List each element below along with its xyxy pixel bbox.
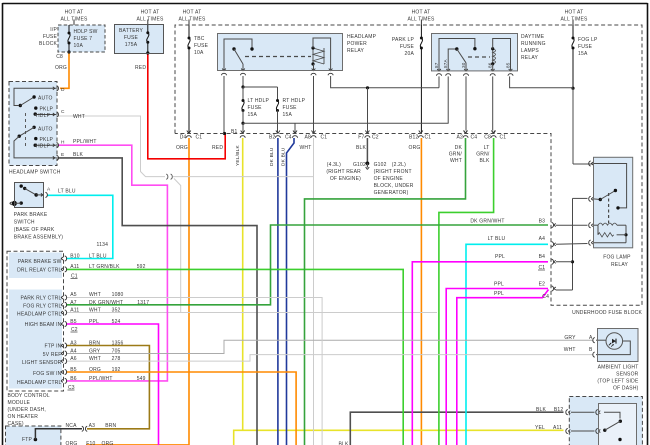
- svg-text:(TOP LEFT SIDE: (TOP LEFT SIDE: [597, 379, 639, 385]
- svg-text:A11: A11: [70, 264, 79, 270]
- svg-text:WHT: WHT: [89, 292, 101, 298]
- svg-text:15A: 15A: [578, 51, 588, 57]
- svg-text:PPL: PPL: [494, 282, 504, 288]
- svg-text:BRN: BRN: [105, 423, 116, 429]
- svg-text:LT BLU: LT BLU: [89, 254, 107, 260]
- svg-text:(2.2L): (2.2L): [392, 162, 406, 168]
- svg-text:FOG LAMP: FOG LAMP: [603, 255, 631, 261]
- svg-text:FUSE: FUSE: [283, 105, 298, 111]
- svg-text:AUTO: AUTO: [38, 127, 53, 133]
- svg-text:A4: A4: [70, 349, 77, 355]
- svg-text:ORG: ORG: [102, 441, 114, 445]
- svg-text:MODULE: MODULE: [8, 400, 31, 406]
- svg-text:RELAY: RELAY: [611, 262, 628, 268]
- svg-text:BLK: BLK: [338, 442, 349, 445]
- svg-text:PARK LP: PARK LP: [392, 37, 415, 43]
- svg-text:YEL: YEL: [535, 425, 545, 431]
- svg-text:ORG: ORG: [89, 367, 101, 373]
- svg-text:A11: A11: [553, 425, 562, 431]
- svg-text:RT HDLP: RT HDLP: [283, 98, 306, 104]
- svg-text:D: D: [61, 87, 65, 93]
- svg-text:HOT AT: HOT AT: [412, 10, 431, 16]
- svg-text:PPL/WHT: PPL/WHT: [89, 376, 113, 382]
- svg-text:PPL: PPL: [494, 291, 504, 297]
- svg-text:DRL RELAY CTRL: DRL RELAY CTRL: [17, 268, 61, 274]
- svg-text:OF DASH): OF DASH): [613, 386, 639, 392]
- svg-text:(BASE OF PARK: (BASE OF PARK: [14, 227, 55, 233]
- svg-text:FOG SW IN: FOG SW IN: [33, 371, 62, 377]
- svg-text:(RIGHT FRONT: (RIGHT FRONT: [374, 169, 412, 175]
- svg-text:FTP: FTP: [22, 437, 33, 443]
- svg-text:RELAY: RELAY: [521, 55, 538, 61]
- svg-text:AUTO: AUTO: [38, 96, 53, 102]
- svg-text:DK BLU: DK BLU: [280, 147, 286, 166]
- svg-text:352: 352: [112, 308, 121, 314]
- svg-text:BLK: BLK: [536, 407, 547, 413]
- svg-text:BODY CONTROL: BODY CONTROL: [8, 393, 50, 399]
- svg-text:A3: A3: [89, 423, 96, 429]
- svg-text:BLK: BLK: [73, 152, 84, 158]
- svg-text:A6: A6: [70, 356, 77, 362]
- svg-text:PPL: PPL: [89, 319, 99, 325]
- svg-text:278: 278: [112, 356, 121, 362]
- svg-text:(4.3L): (4.3L): [327, 162, 341, 168]
- svg-text:524: 524: [112, 319, 121, 325]
- svg-text:HEADLAMP CTRL: HEADLAMP CTRL: [17, 312, 61, 318]
- svg-text:WHT: WHT: [89, 308, 101, 314]
- svg-text:ALL TIMES: ALL TIMES: [560, 17, 588, 23]
- svg-text:RED: RED: [212, 145, 223, 151]
- svg-text:TBC: TBC: [194, 36, 205, 42]
- svg-text:LT BLU: LT BLU: [488, 236, 506, 242]
- svg-text:592: 592: [137, 264, 146, 270]
- svg-text:A: A: [47, 187, 51, 193]
- svg-text:WHT: WHT: [300, 145, 312, 151]
- svg-text:A3: A3: [70, 341, 77, 347]
- svg-text:10A: 10A: [194, 50, 204, 56]
- svg-text:NCA: NCA: [66, 423, 78, 429]
- svg-text:FUSE: FUSE: [248, 105, 263, 111]
- svg-text:ALL TIMES: ALL TIMES: [178, 17, 206, 23]
- svg-text:85: 85: [506, 62, 511, 68]
- svg-text:WHT: WHT: [73, 114, 85, 120]
- svg-text:ALL TIMES: ALL TIMES: [60, 17, 88, 23]
- svg-text:FUSE: FUSE: [578, 44, 593, 50]
- svg-text:F7: F7: [358, 135, 364, 141]
- svg-text:1317: 1317: [137, 300, 149, 306]
- svg-text:WHT: WHT: [89, 356, 101, 362]
- svg-text:PPL: PPL: [495, 254, 505, 260]
- svg-text:A11: A11: [70, 308, 79, 314]
- svg-text:HDLP SW: HDLP SW: [74, 29, 98, 35]
- svg-text:ALL TIMES: ALL TIMES: [136, 17, 164, 23]
- svg-text:F10: F10: [86, 441, 95, 445]
- svg-text:GRN/: GRN/: [476, 152, 490, 158]
- svg-text:175A: 175A: [125, 42, 138, 48]
- svg-text:C4: C4: [285, 135, 292, 141]
- svg-text:C4: C4: [471, 135, 478, 141]
- svg-text:DK GRN/WHT: DK GRN/WHT: [470, 218, 504, 224]
- svg-text:G102: G102: [374, 162, 387, 168]
- svg-text:PARK BRAKE SW: PARK BRAKE SW: [18, 259, 62, 265]
- svg-text:HEADLAMP CTRL: HEADLAMP CTRL: [17, 380, 61, 386]
- svg-text:HOT AT: HOT AT: [141, 10, 160, 16]
- svg-text:30: 30: [461, 62, 466, 68]
- svg-text:LAMPS: LAMPS: [521, 48, 539, 54]
- svg-text:549: 549: [137, 376, 146, 382]
- svg-text:ON HEATER: ON HEATER: [8, 414, 39, 420]
- svg-text:B12: B12: [409, 135, 419, 141]
- svg-text:FUSE: FUSE: [400, 44, 415, 50]
- svg-text:YEL/BLK: YEL/BLK: [235, 145, 241, 166]
- svg-text:BLK: BLK: [479, 158, 490, 164]
- svg-text:A: A: [589, 335, 593, 341]
- svg-text:1134: 1134: [97, 242, 109, 248]
- svg-text:ORG: ORG: [55, 65, 67, 71]
- svg-text:192: 192: [112, 367, 121, 373]
- svg-text:LT GRN/BLK: LT GRN/BLK: [89, 264, 120, 270]
- svg-text:15A: 15A: [248, 112, 258, 118]
- svg-text:87: 87: [434, 62, 439, 68]
- svg-text:ORG: ORG: [409, 145, 421, 151]
- svg-text:RUNNING: RUNNING: [521, 41, 546, 47]
- svg-text:C8: C8: [484, 135, 491, 141]
- svg-text:HEADLAMP SWITCH: HEADLAMP SWITCH: [9, 170, 61, 176]
- svg-text:LT BLU: LT BLU: [58, 189, 76, 195]
- svg-text:1356: 1356: [112, 341, 124, 347]
- svg-text:UNDERHOOD FUSE BLOCK: UNDERHOOD FUSE BLOCK: [572, 310, 642, 316]
- svg-text:LT HDLP: LT HDLP: [248, 98, 270, 104]
- svg-text:BLOCK, UNDER: BLOCK, UNDER: [374, 183, 414, 189]
- svg-text:86: 86: [488, 62, 493, 68]
- svg-text:FUSE: FUSE: [43, 34, 58, 40]
- svg-text:C1: C1: [500, 135, 507, 141]
- svg-text:C: C: [61, 109, 65, 115]
- svg-text:HDLP: HDLP: [36, 144, 51, 150]
- svg-text:RED: RED: [135, 65, 146, 71]
- svg-text:SWITCH: SWITCH: [14, 220, 35, 226]
- svg-text:(UNDER DASH,: (UNDER DASH,: [8, 407, 47, 413]
- svg-text:B5: B5: [70, 367, 77, 373]
- svg-text:D4: D4: [180, 135, 187, 141]
- svg-text:FOG LP: FOG LP: [578, 37, 598, 43]
- svg-text:705: 705: [112, 349, 121, 355]
- svg-text:15A: 15A: [283, 112, 293, 118]
- svg-text:C4: C4: [542, 294, 549, 300]
- svg-text:HEADLAMP: HEADLAMP: [347, 34, 377, 40]
- svg-text:B2: B2: [269, 135, 276, 141]
- svg-text:FUSE: FUSE: [194, 43, 209, 49]
- svg-text:PARK RLY CTRL: PARK RLY CTRL: [21, 296, 62, 302]
- svg-text:DK BLU: DK BLU: [269, 147, 275, 166]
- svg-text:DK GRN/WHT: DK GRN/WHT: [89, 300, 123, 306]
- svg-text:B4: B4: [539, 254, 546, 260]
- svg-text:DAYTIME: DAYTIME: [521, 34, 545, 40]
- svg-text:LT: LT: [484, 145, 490, 151]
- svg-text:B6: B6: [70, 376, 77, 382]
- svg-text:GENERATOR): GENERATOR): [374, 190, 409, 196]
- svg-text:H: H: [61, 140, 65, 146]
- svg-text:87A: 87A: [443, 58, 448, 68]
- svg-text:A7: A7: [70, 300, 77, 306]
- svg-text:GRN/: GRN/: [449, 152, 463, 158]
- svg-text:WHT: WHT: [450, 158, 462, 164]
- svg-text:HOT AT: HOT AT: [565, 10, 584, 16]
- svg-text:FUSE 7: FUSE 7: [74, 36, 93, 42]
- svg-text:BLOCK: BLOCK: [39, 41, 57, 47]
- svg-text:E2: E2: [539, 282, 546, 288]
- svg-text:A5: A5: [70, 292, 77, 298]
- svg-text:BRN: BRN: [89, 341, 100, 347]
- svg-text:A2: A2: [456, 135, 463, 141]
- svg-text:PKLP: PKLP: [40, 107, 54, 113]
- svg-text:C1: C1: [196, 135, 203, 141]
- svg-text:10A: 10A: [74, 43, 84, 49]
- svg-text:PPL/WHT: PPL/WHT: [73, 139, 97, 145]
- svg-text:GRY: GRY: [564, 335, 576, 341]
- svg-text:C1: C1: [425, 135, 432, 141]
- svg-text:WHT: WHT: [564, 347, 576, 353]
- svg-text:I/P: I/P: [50, 27, 57, 33]
- svg-text:AMBIENT LIGHT: AMBIENT LIGHT: [598, 365, 639, 371]
- svg-text:POWER: POWER: [347, 41, 367, 47]
- svg-text:GRY: GRY: [89, 349, 101, 355]
- svg-text:OF ENGINE: OF ENGINE: [374, 176, 404, 182]
- svg-text:C1: C1: [321, 135, 328, 141]
- svg-text:BLK: BLK: [356, 145, 367, 151]
- svg-text:PARK BRAKE: PARK BRAKE: [14, 212, 48, 218]
- svg-text:HDLP: HDLP: [36, 113, 51, 119]
- svg-text:SENSOR: SENSOR: [616, 372, 639, 378]
- svg-text:ALL TIMES: ALL TIMES: [407, 17, 435, 23]
- svg-text:C8: C8: [56, 54, 63, 60]
- svg-text:FOG RLY CTRL: FOG RLY CTRL: [23, 304, 61, 310]
- svg-text:HIGH BEAM IN: HIGH BEAM IN: [25, 322, 62, 328]
- svg-text:BRAKE ASSEMBLY): BRAKE ASSEMBLY): [14, 235, 63, 241]
- svg-text:HOT AT: HOT AT: [65, 10, 84, 16]
- svg-text:(RIGHT REAR: (RIGHT REAR: [326, 169, 361, 175]
- svg-text:G102: G102: [353, 162, 366, 168]
- svg-text:B5: B5: [70, 319, 77, 325]
- svg-text:A8: A8: [304, 135, 311, 141]
- svg-text:B10: B10: [70, 254, 80, 260]
- svg-text:ORG: ORG: [66, 441, 78, 445]
- svg-text:1080: 1080: [112, 292, 124, 298]
- svg-text:ORG: ORG: [176, 145, 188, 151]
- svg-text:DK: DK: [455, 145, 463, 151]
- svg-text:B: B: [589, 347, 593, 353]
- svg-text:HOT AT: HOT AT: [183, 10, 202, 16]
- svg-text:FUSE: FUSE: [124, 35, 139, 41]
- svg-text:FTP IN: FTP IN: [45, 344, 62, 350]
- svg-text:A4: A4: [539, 236, 546, 242]
- svg-text:RELAY: RELAY: [347, 48, 364, 54]
- svg-text:E: E: [61, 152, 64, 158]
- svg-text:B3: B3: [539, 218, 546, 224]
- svg-text:B1: B1: [231, 129, 238, 135]
- svg-text:CASE): CASE): [8, 421, 24, 427]
- svg-text:20A: 20A: [405, 51, 415, 57]
- svg-text:BATTERY: BATTERY: [119, 28, 143, 34]
- svg-text:5V REF: 5V REF: [43, 352, 62, 358]
- svg-text:LIGHT SENSOR: LIGHT SENSOR: [22, 360, 62, 366]
- svg-text:OF ENGINE): OF ENGINE): [330, 176, 361, 182]
- svg-text:B12: B12: [554, 407, 564, 413]
- svg-text:C2: C2: [372, 135, 379, 141]
- svg-text:PKLP: PKLP: [40, 137, 54, 143]
